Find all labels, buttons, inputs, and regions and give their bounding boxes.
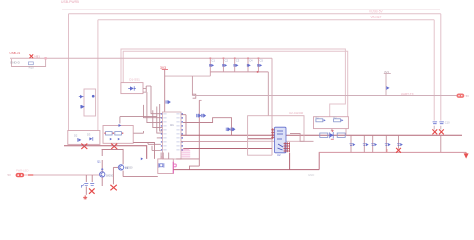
svg-text:C1: C1 (211, 59, 215, 63)
wire vertical to C7 C8 (198, 100, 200, 166)
power symbol bottom-left (83, 195, 87, 199)
svg-text:D1-SS1: D1-SS1 (129, 78, 140, 82)
wire net D upper (123, 51, 348, 116)
svg-text:C3: C3 (236, 59, 240, 63)
wire U1 pin to bottom net (181, 115, 186, 136)
no-connect flags bottom-left (89, 188, 95, 193)
capacitor bank crystal load (181, 149, 190, 157)
wire from connector J1 (10, 58, 272, 155)
transistor Q2 (118, 165, 123, 170)
svg-text:S8050: S8050 (106, 173, 114, 177)
wire 3V3 rail (165, 75, 210, 77)
svg-text:C2: C2 (225, 59, 229, 63)
svg-text:5V: 5V (8, 173, 12, 177)
pin bracket on net (193, 94, 196, 98)
diode D1 symbol (130, 86, 134, 90)
wire Q2 to crystal box (123, 176, 158, 178)
no-connect flags under boxes (81, 144, 87, 149)
wire bus hook to 3V3 rail (209, 72, 211, 76)
crystal X1 box (158, 159, 174, 174)
svg-text:N$1: N$1 (34, 54, 40, 58)
capacitor C6 (166, 100, 170, 103)
wire VUSB right vertical (440, 14, 442, 121)
capacitor C17 C18 (85, 175, 87, 182)
resistor network RN1 box (103, 126, 133, 144)
ground flag arrow (464, 153, 469, 158)
svg-text:VB-DET: VB-DET (371, 15, 382, 19)
svg-text:Q1: Q1 (97, 159, 101, 163)
wire bottom-left nets (64, 146, 147, 159)
port flag 5V left (16, 173, 25, 177)
svg-text:C5: C5 (260, 59, 264, 63)
wire net C upper (121, 49, 345, 117)
wire J1 return loop (12, 58, 46, 66)
resistor R4 pull-up (385, 74, 387, 96)
node J1 junction (44, 57, 46, 59)
wire GND bus (319, 151, 466, 153)
wire crystal to net jog (176, 159, 199, 170)
svg-text:UART-TX: UART-TX (401, 92, 414, 96)
svg-text:U2-CH340: U2-CH340 (289, 111, 304, 115)
wire D1 output (143, 89, 146, 93)
svg-text:S8550: S8550 (125, 166, 133, 170)
transistor Q1 (100, 172, 105, 177)
wire VB-DET right vertical (433, 20, 435, 121)
pin marks U1 left upper (161, 113, 183, 150)
svg-text:PWR-LED: PWR-LED (16, 169, 28, 173)
wire capacitor ground bus (210, 71, 268, 73)
resistor R5 R6 with transistor Q4 (320, 133, 328, 137)
wire 3V3 to U1 (164, 70, 166, 112)
wire bus drop to U2 box (267, 72, 269, 116)
wire bus drop to ground net (318, 152, 320, 169)
port flag 5V right (457, 94, 465, 98)
wire bundle to U1 left pins (120, 86, 163, 151)
transistor Q3 box (84, 89, 96, 116)
wire U2 ground drop (289, 153, 291, 170)
wire rail drop x192 (191, 76, 193, 95)
wire U2 right step (290, 134, 314, 142)
wire net 5V long horizontal (192, 95, 456, 97)
no-connect flag on J1 (30, 54, 34, 58)
svg-text:D2: D2 (74, 133, 78, 137)
IC U2 outline box (248, 116, 304, 142)
svg-text:GND: GND (308, 173, 314, 177)
svg-text:D3: D3 (87, 133, 91, 137)
capacitor pair C7 C8 (197, 114, 206, 117)
svg-text:GND-D: GND-D (10, 60, 21, 64)
svg-text:C10: C10 (445, 120, 450, 124)
wire U1 bottom pins (161, 153, 169, 159)
pin grid U2 left (271, 128, 274, 139)
diode symbol on RN1 (119, 124, 122, 127)
svg-text:U2: U2 (277, 153, 281, 157)
svg-text:U1: U1 (170, 123, 174, 127)
wire port to Q1 (33, 174, 99, 176)
wire net VUSB top (69, 13, 441, 15)
svg-text:USB-PWR5: USB-PWR5 (61, 0, 79, 4)
value labels C1-C5 (211, 59, 263, 63)
no-connect flags C10 C11 (432, 129, 437, 134)
svg-text:C4: C4 (249, 59, 253, 63)
capacitor row C12-C16 (351, 135, 399, 152)
op-amp U1 body (163, 112, 182, 159)
wire net VB-DET top (98, 19, 434, 21)
svg-text:USB-J1: USB-J1 (10, 51, 21, 55)
capacitor C10 C11 (433, 122, 444, 124)
svg-text:5V: 5V (466, 94, 470, 98)
pin grid U2 bottom (284, 142, 291, 152)
wire VUSB left vertical (68, 14, 70, 131)
resistor R2 R3 box (314, 117, 349, 129)
wire step to C9 (183, 118, 232, 136)
capacitor pair C9 (226, 128, 235, 131)
wire VB-DET left vertical (97, 20, 99, 131)
diode D2 D3 box (68, 131, 100, 145)
crystal X1 highlight (172, 162, 174, 174)
svg-text:VUSB-5V: VUSB-5V (369, 10, 384, 14)
svg-text:3V3: 3V3 (384, 70, 389, 74)
resistor R10 (29, 62, 34, 65)
diode D1 box (121, 83, 143, 94)
svg-text:R10: R10 (29, 66, 35, 70)
wire faint top border net (62, 9, 440, 11)
IC U2 symbol (275, 127, 287, 153)
capacitor symbols C1-C5 (210, 64, 262, 67)
wire U1 right nets (181, 134, 462, 136)
capacitor leads C1-C5 (209, 58, 211, 72)
wire ground net long (173, 169, 319, 171)
